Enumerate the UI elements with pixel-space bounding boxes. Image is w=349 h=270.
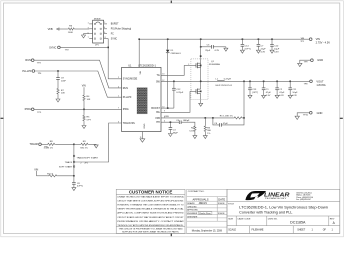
svg-text:47µF: 47µF: [266, 92, 272, 94]
svg-text:SYNC: SYNC: [49, 45, 56, 49]
svg-text:TRACK/SOFT START: TRACK/SOFT START: [77, 156, 99, 159]
svg-text:2.75V - 4.5V: 2.75V - 4.5V: [316, 41, 331, 45]
fold tick left: [0, 118, 3, 119]
title block outline: [227, 189, 340, 233]
wire BOOST: [161, 107, 174, 109]
ground C5: [225, 47, 227, 48]
svg-text:A: A: [333, 221, 336, 225]
svg-text:ITH: ITH: [156, 121, 160, 124]
svg-text:Monday, September 15, 2008: Monday, September 15, 2008: [192, 230, 223, 233]
ground R9: [95, 143, 97, 146]
node PLLLPF terminal TP4: [32, 70, 35, 73]
svg-text:(OPT): (OPT): [77, 186, 83, 188]
svg-text:TP10: TP10: [303, 115, 309, 117]
resistor R8: [41, 143, 47, 145]
svg-text:SCALE: SCALE: [228, 229, 236, 232]
svg-text:BG: BG: [156, 111, 160, 114]
resistor R3: [204, 118, 206, 126]
svg-text:TP9: TP9: [304, 62, 309, 64]
fold tick bottom: [171, 233, 172, 236]
svg-text:TG: TG: [156, 74, 159, 77]
wire FB tap vertical: [243, 81, 245, 118]
svg-text:10µF: 10µF: [292, 92, 298, 94]
svg-text:SIZE: SIZE: [228, 218, 233, 220]
svg-text:6.3V: 6.3V: [274, 51, 279, 53]
node C1 junction: [263, 81, 265, 83]
wire ITH / capacitor C4: [161, 121, 179, 123]
svg-text:47pF: 47pF: [223, 123, 229, 125]
capacitor C2: [275, 81, 285, 98]
resistor R5: [83, 109, 85, 115]
svg-text:7: 7: [88, 37, 89, 39]
svg-text:8: 8: [105, 37, 106, 39]
wire IPRG: [34, 108, 122, 110]
svg-text:SW: SW: [156, 80, 161, 83]
svg-text:PLLLPF: PLLLPF: [22, 69, 32, 73]
svg-text:GND: GND: [317, 58, 323, 62]
svg-text:10K: 10K: [61, 93, 65, 95]
svg-text:TP2: TP2: [65, 49, 70, 51]
capacitor C9: [57, 71, 59, 78]
svg-text:THIS CIRCUIT IS PROPRIETARY TO: THIS CIRCUIT IS PROPRIETARY TO LINEAR TE…: [119, 228, 184, 231]
node GND terminal TP9: [311, 59, 314, 62]
U1 exposed pad hatch: [137, 88, 147, 114]
svg-text:5.1K: 5.1K: [189, 131, 194, 133]
inductor L1: [217, 79, 224, 82]
svg-text:6.3V: 6.3V: [292, 95, 297, 97]
svg-text:Fax: (408)434-0507: Fax: (408)434-0507: [296, 199, 311, 201]
svg-text:R7: R7: [61, 90, 65, 92]
svg-text:TP4: TP4: [38, 73, 43, 75]
svg-text:VIN: VIN: [140, 70, 142, 74]
svg-text:GND: GND: [317, 111, 323, 115]
svg-text:1.18K 1%: 1.18K 1%: [44, 148, 54, 150]
svg-text:C3: C3: [173, 130, 177, 132]
capacitor C3: [169, 122, 171, 127]
svg-text:TECHNOLOGY: TECHNOLOGY: [265, 198, 287, 200]
ground JP1 pin5: [84, 34, 90, 35]
svg-text:R9: R9: [83, 141, 87, 143]
svg-text:6.3V: 6.3V: [279, 95, 284, 97]
svg-text:IPRG: IPRG: [25, 107, 31, 111]
svg-text:22µF: 22µF: [205, 50, 211, 52]
svg-text:TRACK: TRACK: [30, 142, 39, 146]
svg-text:APPROVALS: APPROVALS: [193, 198, 209, 202]
svg-text:GND: GND: [144, 123, 146, 128]
svg-text:CMDSH-3: CMDSH-3: [171, 53, 182, 55]
svg-text:TRACK/SS: TRACK/SS: [123, 122, 135, 125]
ground R7: [56, 99, 60, 102]
node D1 junction: [167, 38, 169, 40]
svg-text:BURST: BURST: [111, 24, 119, 26]
svg-text:CUSTOMER NOTICE: CUSTOMER NOTICE: [129, 190, 173, 195]
transistor Q1 bottom FET: [190, 90, 196, 92]
capacitor C14: [240, 39, 250, 53]
svg-text:VOUT: VOUT: [316, 79, 324, 83]
ground C3: [168, 134, 172, 137]
svg-text:(OPT): (OPT): [245, 49, 251, 51]
approvals table: [187, 189, 227, 233]
svg-text:VERIFY PROPER AND RELIABLE OPE: VERIFY PROPER AND RELIABLE OPERATION IN …: [117, 208, 184, 211]
svg-text:DC1185A: DC1185A: [290, 221, 306, 225]
capacitor C12: [173, 81, 175, 88]
node R8-R9 junction: [73, 144, 75, 146]
transistor Q1 top FET: [184, 64, 196, 66]
size/cage/dwg row: [235, 216, 237, 226]
svg-text:MELGN: MELGN: [199, 203, 208, 205]
node C12 junction: [173, 81, 175, 83]
node SYNC junction: [107, 47, 109, 49]
svg-text:10µF: 10µF: [274, 49, 280, 51]
svg-text:R10 0: R10 0: [47, 173, 54, 175]
wire BG: [161, 91, 190, 112]
capacitor C10: [270, 39, 280, 53]
node IPRG terminal TP5: [31, 108, 34, 111]
svg-text:VIN: VIN: [301, 38, 305, 40]
node R1-C6 junction: [243, 117, 245, 119]
svg-text:6.3V: 6.3V: [215, 50, 220, 52]
resistor R9: [75, 143, 80, 145]
ground Q1 source: [199, 103, 203, 106]
svg-text:IPRG: IPRG: [123, 108, 129, 111]
svg-text:C13: C13: [252, 89, 257, 91]
svg-text:CONTRACT NO.: CONTRACT NO.: [188, 190, 205, 193]
Q1 dashed outline: [191, 59, 208, 100]
svg-text:22µF: 22µF: [261, 49, 267, 51]
ground U1: [140, 139, 145, 142]
resistor R7: [57, 88, 59, 95]
wire TG: [161, 65, 184, 75]
svg-text:PLLLPF: PLLLPF: [123, 96, 132, 99]
svg-text:TP3: TP3: [37, 62, 42, 64]
svg-text:C11: C11: [292, 89, 297, 91]
svg-text:39pF: 39pF: [173, 132, 179, 134]
svg-text:2: 2: [80, 162, 82, 164]
svg-text:2: 2: [188, 64, 189, 66]
svg-text:100K: 100K: [68, 32, 74, 34]
node C5 junction: [200, 46, 202, 48]
svg-text:6.3V: 6.3V: [266, 95, 271, 97]
ground C8: [72, 188, 76, 191]
svg-text:0.47µH: 0.47µH: [224, 79, 232, 81]
svg-text:C10: C10: [274, 46, 279, 48]
wire SW: [161, 80, 217, 82]
svg-text:DWG NO.: DWG NO.: [268, 218, 278, 220]
ground R2: [193, 136, 197, 139]
node C11 junction: [289, 81, 291, 83]
svg-text:FDS6898A: FDS6898A: [209, 63, 220, 66]
svg-text:TP8: TP8: [304, 83, 309, 85]
svg-text:JP2: JP2: [84, 162, 88, 164]
customer notice box: [116, 189, 185, 233]
fold tick right: [340, 118, 343, 119]
svg-text:VFB: VFB: [155, 117, 160, 120]
capacitor C8: [73, 176, 75, 183]
connector JP2: [73, 144, 75, 176]
node R3 junction: [205, 117, 207, 119]
U1 pin numbers: [118, 66, 165, 139]
capacitor C1: [262, 81, 272, 98]
svg-text:TP1: TP1: [300, 41, 305, 43]
svg-text:LINEAR TECHNOLOGY HAS MADE A B: LINEAR TECHNOLOGY HAS MADE A BEST EFFORT…: [117, 196, 184, 199]
svg-text:2: 2: [104, 22, 105, 24]
svg-text:680pF: 680pF: [183, 120, 190, 122]
svg-text:0.22µF: 0.22µF: [176, 92, 184, 94]
scale/filename/sheet row: [248, 226, 250, 234]
svg-text:FILENAME: FILENAME: [252, 229, 264, 232]
JP1 pins: [89, 24, 108, 39]
node RUN terminal TP3: [31, 59, 34, 62]
svg-text:OF: OF: [323, 229, 327, 232]
ground R5: [82, 126, 86, 129]
node C10 junction: [271, 38, 273, 40]
wire JP2 to TRACK/SS: [75, 123, 122, 162]
svg-text:6: 6: [104, 32, 105, 34]
svg-text:47µF: 47µF: [279, 92, 285, 94]
svg-text:TRACK: TRACK: [65, 161, 73, 164]
wire VFB net: [161, 117, 233, 119]
wire U1 VIN pin drop: [138, 39, 140, 67]
svg-text:FC: FC: [111, 34, 114, 36]
svg-text:C7: C7: [261, 46, 265, 48]
capacitor C6: [213, 118, 220, 125]
svg-text:590 1%: 590 1%: [80, 148, 87, 150]
svg-text:1: 1: [88, 23, 89, 25]
svg-text:OPT: OPT: [87, 119, 92, 121]
svg-text:10nF: 10nF: [61, 80, 67, 82]
svg-text:RUN: RUN: [123, 87, 128, 90]
svg-text:SUPPLIED FOR USE WITH LINEAR T: SUPPLIED FOR USE WITH LINEAR TECHNOLOGY …: [122, 231, 179, 234]
wire RUN: [34, 60, 122, 88]
svg-text:Q1: Q1: [211, 61, 215, 63]
svg-text:HOWEVER, IT REMAINS THE CUSTOM: HOWEVER, IT REMAINS THE CUSTOMER'S RESPO…: [117, 204, 184, 207]
node Q1 column junction: [200, 38, 202, 40]
resistor R2: [194, 125, 196, 132]
svg-text:(OPT): (OPT): [252, 92, 258, 94]
svg-text:R6: R6: [69, 26, 73, 28]
connector JP1 MODE: [88, 18, 132, 46]
svg-text:SOFT START: SOFT START: [59, 166, 73, 169]
svg-text:RUN: RUN: [25, 58, 31, 62]
wire VOUT rail: [217, 80, 310, 82]
fold tick top: [171, 1, 172, 4]
svg-text:APPLICATION. COMPONENT SUBSTI: APPLICATION. COMPONENT SUBSTITUTION AND …: [117, 212, 184, 215]
svg-text:VFB: VFB: [164, 116, 169, 118]
diode D1 CMDSH-3: [167, 39, 169, 50]
svg-text:1: 1: [312, 229, 314, 232]
svg-text:CAGE CODE: CAGE CODE: [237, 217, 251, 220]
node C9 junction: [57, 70, 59, 72]
svg-text:PERFORMANCE OR RELIABILITY. C: PERFORMANCE OR RELIABILITY. CONTACT LINE…: [117, 220, 184, 223]
svg-text:LTC3620EDD-1: LTC3620EDD-1: [138, 64, 156, 67]
svg-text:REV: REV: [330, 218, 335, 220]
svg-text:R8: R8: [50, 141, 54, 143]
svg-text:SYNC: SYNC: [111, 38, 118, 40]
capacitor C13: [248, 81, 258, 98]
svg-text:Converter with Tracking and PL: Converter with Tracking and PLL: [239, 211, 292, 215]
node GND terminal TP10: [310, 112, 313, 115]
svg-text:JP1: JP1: [95, 45, 100, 47]
svg-text:DATE: DATE: [218, 198, 225, 202]
svg-text:CIRCUIT BOARD LAYOUT MAY SIGNI: CIRCUIT BOARD LAYOUT MAY SIGNIFICANTLY A…: [117, 216, 184, 219]
wire VIN rail: [139, 38, 309, 40]
svg-text:C12: C12: [176, 89, 181, 91]
svg-text:SHEET: SHEET: [297, 229, 306, 232]
op-amp U1 LTC3620EDD-1 body: [122, 67, 161, 131]
svg-text:VFB: VFB: [48, 27, 53, 31]
svg-text:IHLP-2525CZ-01: IHLP-2525CZ-01: [216, 85, 233, 87]
svg-text:1: 1: [332, 228, 334, 231]
svg-text:R3: R3: [207, 127, 211, 129]
node SYNC terminal TP2: [58, 46, 61, 49]
svg-text:VIN: VIN: [316, 37, 320, 41]
node R4 junction: [83, 109, 85, 111]
node BOOST-D1 junction: [167, 107, 169, 109]
ground R3: [203, 136, 207, 139]
svg-text:6.3V: 6.3V: [261, 51, 266, 53]
svg-text:C9: C9: [61, 78, 65, 80]
node TRACK terminal TP6: [39, 143, 42, 146]
logo address: [296, 192, 313, 201]
svg-text:10K: 10K: [87, 99, 91, 101]
wire PLLLPF: [35, 71, 122, 97]
node VOUT terminal TP8: [310, 80, 313, 83]
svg-text:MODE: MODE: [94, 18, 101, 20]
svg-text:TITLE: TITLE: [228, 203, 234, 205]
svg-text:R4: R4: [87, 96, 91, 98]
Linear Technology logo mark: [245, 191, 266, 200]
svg-text:CIRCUIT THAT MEETS CUSTOMER-SU: CIRCUIT THAT MEETS CUSTOMER-SUPPLIED SPE…: [117, 200, 184, 203]
node R10-C8 junction: [73, 175, 75, 177]
svg-text:590: 590: [207, 130, 211, 132]
svg-text:R1 1.18K 1%: R1 1.18K 1%: [220, 115, 233, 117]
node C6 junction: [212, 117, 214, 119]
svg-text:PS (Pulse Skipping): PS (Pulse Skipping): [111, 29, 132, 31]
svg-text:SYNC/MODE: SYNC/MODE: [123, 78, 138, 81]
node FB tap junction: [243, 81, 245, 83]
svg-text:C5: C5: [207, 45, 211, 47]
node VIN-pin junction: [138, 38, 140, 40]
node C3 junction: [170, 121, 172, 123]
svg-text:4: 4: [104, 27, 105, 29]
svg-text:U1: U1: [128, 64, 132, 67]
svg-text:BOOST: BOOST: [151, 107, 160, 110]
node C2 junction: [276, 81, 278, 83]
svg-text:D1: D1: [171, 50, 175, 52]
node VIN terminal: [309, 38, 312, 41]
svg-text:TP5: TP5: [37, 112, 42, 114]
svg-text:VIN: VIN: [82, 85, 86, 88]
svg-text:1.8V/6A: 1.8V/6A: [316, 83, 325, 87]
capacitor C11: [288, 81, 298, 98]
svg-text:1%: 1%: [207, 133, 210, 135]
capacitor C7: [256, 39, 266, 53]
wire SYNC net: [108, 39, 121, 79]
customer notice fine print: [116, 196, 185, 234]
node C13 junction: [249, 81, 251, 83]
svg-text:C14: C14: [245, 46, 250, 48]
resistor R1: [233, 117, 242, 119]
node C14 junction: [242, 38, 244, 40]
svg-text:C8: C8: [77, 183, 81, 185]
node C7 junction: [258, 38, 260, 40]
svg-text:LTC3620EDD-1, Low Vin Synchro: LTC3620EDD-1, Low Vin Synchronous Step-D…: [239, 205, 328, 209]
wire U1 GND pin: [141, 132, 143, 139]
svg-text:C1: C1: [266, 89, 270, 91]
svg-text:C2: C2: [279, 89, 283, 91]
capacitor C5: [201, 46, 212, 48]
node SW junction: [200, 81, 202, 83]
svg-text:R5: R5: [87, 117, 91, 119]
